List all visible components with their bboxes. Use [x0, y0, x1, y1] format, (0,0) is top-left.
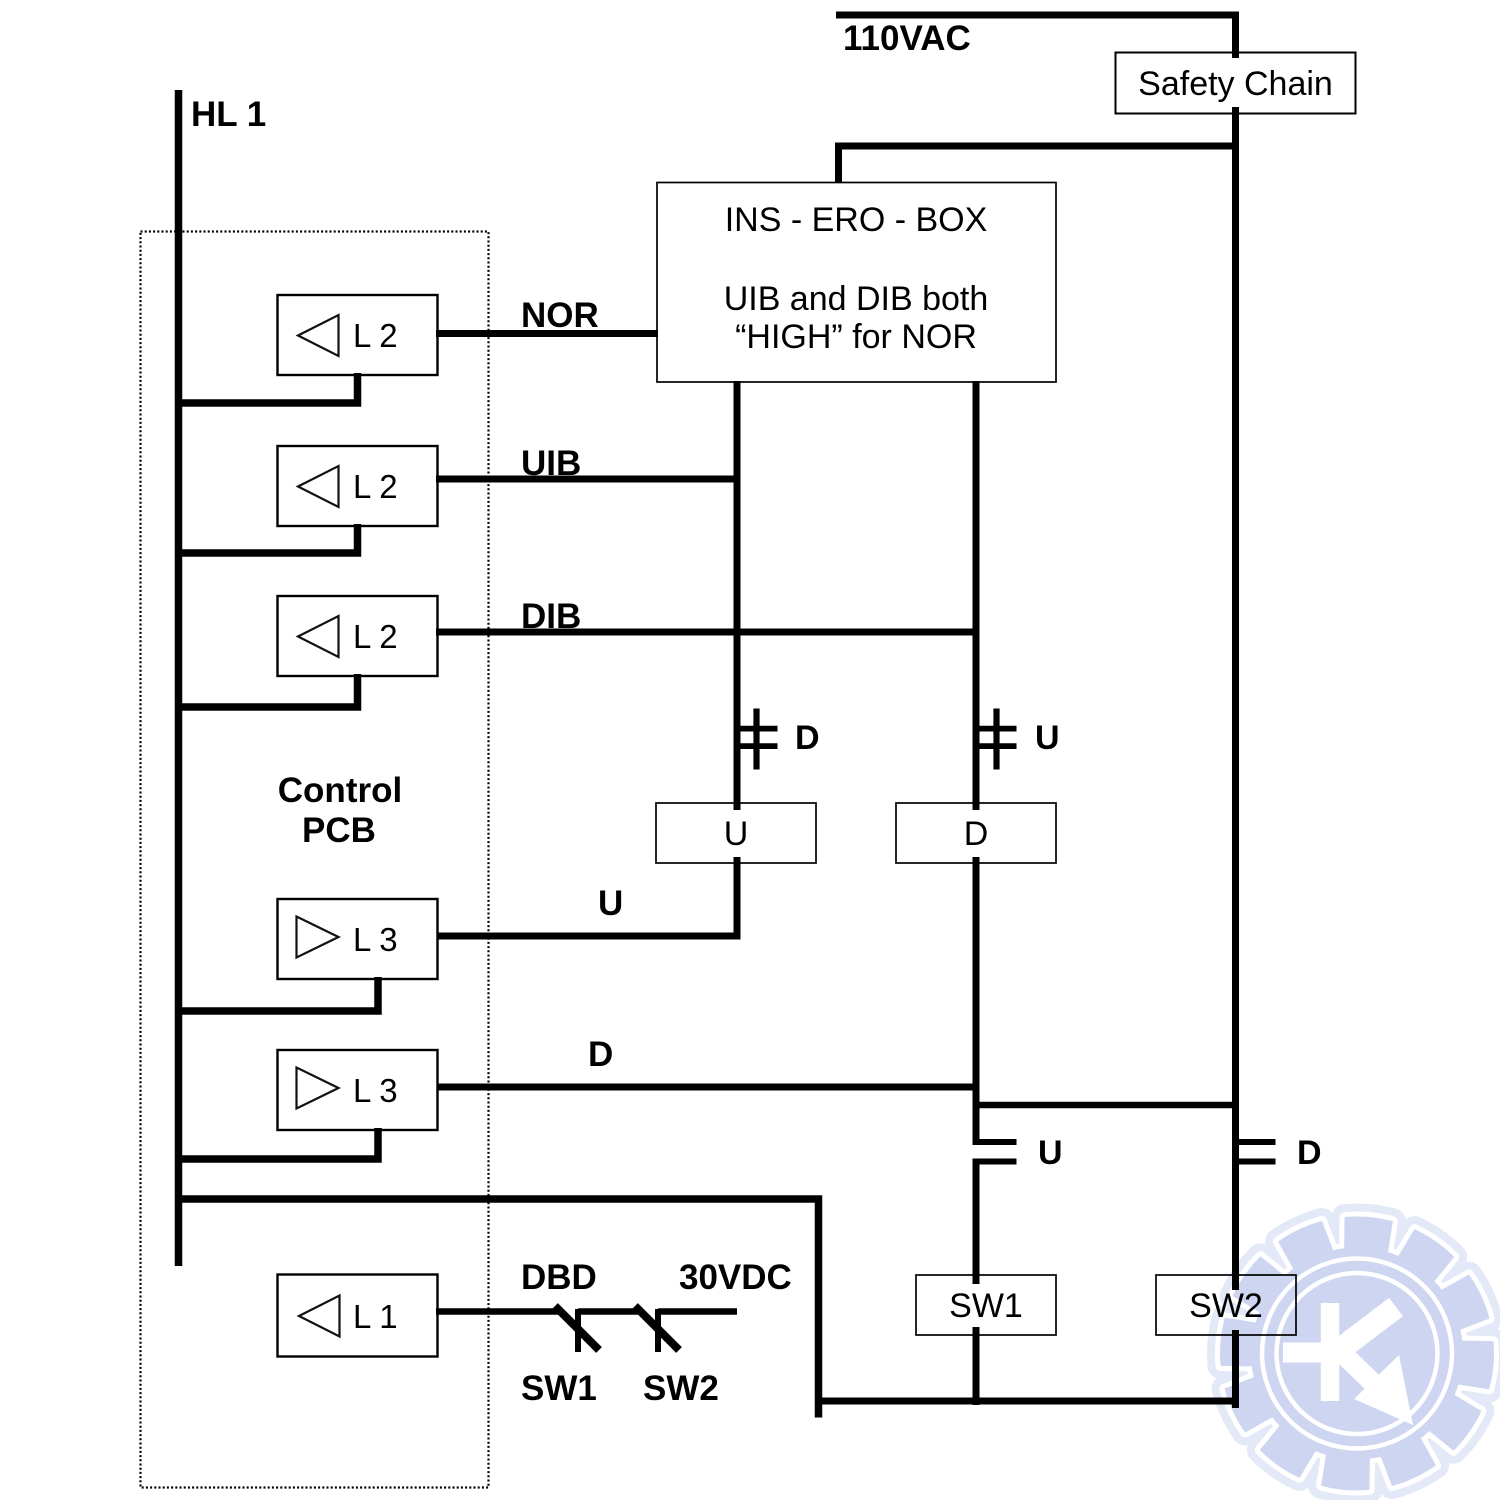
- svg-text:INS - ERO - BOX: INS - ERO - BOX: [725, 201, 988, 239]
- svg-text:D: D: [1297, 1134, 1322, 1172]
- svg-text:30VDC: 30VDC: [679, 1258, 792, 1297]
- wire L1 to SW1 switch: [436, 1308, 562, 1315]
- svg-text:U: U: [1038, 1134, 1063, 1172]
- svg-text:U: U: [724, 815, 749, 853]
- wire DIB: [436, 629, 980, 636]
- box SW1: [916, 1275, 1056, 1335]
- wire below SW1: [973, 1327, 980, 1405]
- svg-text:L 2: L 2: [353, 468, 398, 505]
- contact D (NC): [734, 709, 778, 770]
- coil box D: [896, 803, 1056, 863]
- wire 110VAC feed: [836, 12, 1239, 19]
- svg-text:DIB: DIB: [521, 597, 581, 636]
- wire to SW1: [973, 1159, 980, 1285]
- svg-text:UIB: UIB: [521, 444, 581, 483]
- wire safety-chain bus (right vertical) upper: [1232, 12, 1239, 59]
- wire bottom tie: [815, 1398, 1239, 1405]
- svg-text:SW1: SW1: [521, 1369, 597, 1408]
- svg-text:110VAC: 110VAC: [843, 19, 971, 58]
- lamp L2 (UIB): [278, 446, 438, 526]
- switch SW2 blade: [635, 1306, 679, 1350]
- svg-text:DBD: DBD: [521, 1258, 597, 1297]
- svg-text:SW2: SW2: [1189, 1287, 1263, 1325]
- contact U (NC): [973, 709, 1017, 770]
- svg-text:L 2: L 2: [353, 317, 398, 354]
- svg-text:U: U: [1035, 719, 1060, 757]
- svg-text:L 3: L 3: [353, 921, 398, 958]
- control PCB boundary: [141, 232, 489, 1488]
- svg-text:Control: Control: [278, 771, 402, 810]
- wire INS right output: [973, 381, 980, 810]
- wire 30VDC: [658, 1308, 737, 1315]
- box SW2: [1156, 1275, 1296, 1335]
- wire between switches: [578, 1308, 638, 1315]
- wire L3 U return: [175, 977, 378, 1011]
- wire L2 DIB return: [175, 674, 358, 707]
- switch SW2 post: [655, 1309, 661, 1352]
- switch SW1 blade: [555, 1306, 599, 1350]
- wire second feed: [835, 143, 1239, 150]
- svg-text:L 3: L 3: [353, 1072, 398, 1109]
- svg-text:D: D: [795, 719, 820, 757]
- box Safety Chain: [1116, 53, 1356, 114]
- coil box U: [656, 803, 816, 863]
- lamp L2 (NOR): [278, 295, 438, 375]
- lamp L1: [278, 1275, 438, 1357]
- svg-text:U: U: [598, 884, 623, 923]
- contact U (NO break): [973, 1142, 1017, 1162]
- lamp L3 (D): [278, 1050, 438, 1130]
- wire cross tie: [973, 1102, 1240, 1109]
- wire long return: [175, 1199, 819, 1418]
- wire U coil to L3: [436, 857, 737, 936]
- wire UIB: [436, 476, 741, 483]
- wire L3 D return: [175, 1128, 378, 1159]
- lamp L3 (U): [278, 899, 438, 979]
- watermark logo: [1220, 1217, 1494, 1491]
- wire D coil lower: [973, 857, 980, 1145]
- svg-text:PCB: PCB: [302, 811, 376, 850]
- wire INS left output: [734, 381, 741, 810]
- svg-text:“HIGH” for NOR: “HIGH” for NOR: [735, 318, 977, 356]
- box INS-ERO-BOX: [657, 183, 1056, 383]
- switch SW1 post: [575, 1309, 581, 1352]
- svg-text:D: D: [588, 1035, 613, 1074]
- wire L2 NOR return: [175, 373, 358, 403]
- svg-text:Safety Chain: Safety Chain: [1138, 65, 1333, 103]
- svg-text:SW2: SW2: [643, 1369, 719, 1408]
- svg-text:UIB and DIB both: UIB and DIB both: [724, 280, 989, 318]
- svg-text:SW1: SW1: [949, 1287, 1023, 1325]
- wire L2 UIB return: [175, 524, 358, 553]
- lamp L2 (DIB): [278, 596, 438, 676]
- svg-text:D: D: [964, 815, 989, 853]
- wire safety-chain bus lower: [1232, 1330, 1239, 1408]
- contact D (bars on bus): [1233, 1142, 1276, 1162]
- svg-text:HL 1: HL 1: [191, 95, 266, 134]
- svg-text:NOR: NOR: [521, 296, 599, 335]
- wire drop to INS box: [835, 143, 842, 183]
- svg-text:L 1: L 1: [353, 1298, 398, 1335]
- bus HL1: [175, 90, 183, 1266]
- wire NOR: [436, 330, 658, 337]
- svg-text:L 2: L 2: [353, 618, 398, 655]
- wire D to L3: [436, 1084, 980, 1091]
